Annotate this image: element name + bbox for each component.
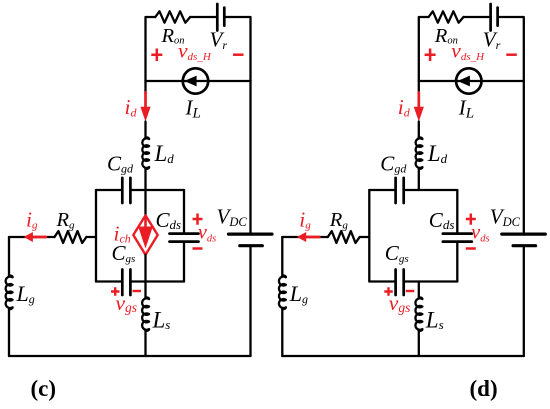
capacitor V_r plate left: [216, 4, 219, 31]
current arrow i_g head: [24, 232, 33, 242]
current arrow i_d shaft: [144, 93, 147, 109]
svg-text:Ls: Ls: [152, 308, 171, 333]
current source I_L circle: [456, 68, 481, 93]
svg-text:Cds: Cds: [156, 208, 182, 232]
wire capacitor to top-right corner: [499, 17, 524, 81]
current arrow i_d shaft: [417, 93, 420, 109]
capacitor C_ds plate top: [443, 232, 472, 235]
capacitor V_r plate right: [223, 8, 226, 26]
inductor L_g: [279, 276, 286, 310]
box bottom edge left: [96, 280, 121, 282]
wire top-left vertical and top lead: [146, 17, 156, 81]
svg-text:Ld: Ld: [154, 141, 175, 166]
inductor L_d: [142, 137, 149, 169]
svg-text:ig: ig: [26, 208, 38, 232]
current arrow i_g shaft: [31, 236, 46, 239]
capacitor C_gd plate left: [121, 178, 124, 203]
current arrow i_d head: [414, 107, 424, 122]
minus sign vds_H: [233, 53, 244, 56]
inductor L_g: [6, 276, 13, 310]
bottom wire: [9, 355, 251, 357]
svg-text:Vr: Vr: [210, 28, 228, 53]
gate wire left segment: [9, 236, 55, 238]
plus sign vds_H: [151, 49, 162, 62]
battery V_DC long plate: [502, 233, 546, 236]
svg-text:VDC: VDC: [217, 205, 248, 230]
current arrow i_g shaft: [304, 236, 319, 239]
svg-text:(c): (c): [31, 376, 57, 401]
current arrow i_d head: [140, 107, 150, 122]
plus sign vds: [466, 214, 476, 225]
plus sign vds: [193, 214, 203, 225]
svg-text:Ls: Ls: [425, 308, 444, 333]
capacitor C_gs plate left: [121, 270, 124, 296]
wire inductor to box: [418, 169, 420, 190]
minus sign vgs: [133, 290, 142, 292]
box top edge left: [369, 189, 394, 191]
svg-text:vgs: vgs: [116, 291, 138, 315]
resistor R_on: [155, 11, 190, 22]
box right edge lower: [183, 243, 185, 281]
wire drain junction down: [144, 81, 146, 94]
svg-text:Lg: Lg: [16, 281, 35, 306]
wire battery to bottom-right corner: [249, 247, 251, 356]
gate wire to box: [360, 236, 370, 238]
svg-text:Cgs: Cgs: [112, 241, 136, 265]
svg-text:vds_H: vds_H: [178, 39, 212, 64]
wire arrow to inductor: [144, 122, 146, 138]
box bottom edge right: [405, 280, 457, 282]
box left edge: [95, 190, 97, 282]
capacitor C_ds plate bottom: [443, 240, 472, 243]
inductor L_d: [416, 137, 423, 169]
svg-text:Cgd: Cgd: [380, 152, 407, 176]
wire diamond to inductor Ls: [144, 255, 146, 298]
current arrow i_g head: [297, 232, 306, 242]
bottom wire: [282, 355, 524, 357]
wire resistor to capacitor: [464, 16, 490, 18]
inductor L_s: [415, 297, 422, 331]
current source I_L circle: [183, 68, 208, 93]
capacitor V_r plate right: [496, 8, 499, 26]
svg-text:Cds: Cds: [429, 208, 455, 232]
battery V_DC long plate: [229, 233, 273, 236]
capacitor C_gd plate right: [402, 178, 405, 203]
svg-text:(d): (d): [470, 376, 498, 401]
current source i_ch arrow head: [138, 227, 153, 249]
left rail lower: [8, 309, 10, 356]
wire top-left vertical and top lead: [419, 17, 429, 81]
left rail lower: [281, 309, 283, 356]
box bottom edge right: [132, 280, 184, 282]
wire Ls to bottom: [418, 331, 420, 356]
svg-text:IL: IL: [458, 96, 474, 122]
wire arrow to inductor: [418, 122, 420, 138]
minus sign vgs: [406, 290, 415, 292]
plus sign vgs: [384, 287, 393, 296]
svg-text:VDC: VDC: [490, 205, 521, 230]
svg-text:id: id: [398, 95, 411, 120]
left rail: [281, 237, 283, 276]
current source i_ch arrow shaft: [144, 218, 147, 231]
box right edge upper: [183, 190, 185, 232]
svg-text:Vr: Vr: [483, 28, 501, 53]
wire Ls to bottom: [144, 331, 146, 356]
wire inductor to box: [144, 169, 146, 190]
battery V_DC short plate: [513, 244, 536, 247]
battery V_DC short plate: [240, 244, 262, 247]
svg-text:IL: IL: [185, 96, 201, 122]
capacitor C_gs plate left: [394, 270, 397, 296]
current source I_L arrowhead: [458, 76, 470, 87]
svg-text:vgs: vgs: [389, 291, 411, 315]
wire mid horizontal through current source: [419, 80, 524, 82]
capacitor C_ds plate top: [170, 232, 199, 235]
svg-text:Lg: Lg: [289, 281, 308, 306]
minus sign vds: [466, 247, 476, 250]
svg-text:vds: vds: [198, 222, 216, 245]
capacitor C_gs plate right: [402, 270, 405, 296]
gate wire to box: [86, 236, 96, 238]
gate wire left segment: [282, 236, 328, 238]
plus sign vgs: [111, 287, 120, 296]
wire right rail to battery: [249, 81, 251, 233]
box top edge right: [405, 189, 457, 191]
current source I_L arrowhead: [184, 76, 196, 87]
capacitor C_gd plate right: [129, 178, 132, 203]
plus sign vds_H: [425, 49, 436, 62]
box left edge: [368, 190, 370, 282]
svg-text:Rg: Rg: [56, 209, 76, 232]
capacitor V_r plate left: [489, 4, 492, 31]
inductor L_s: [142, 297, 149, 331]
box top edge right: [132, 189, 184, 191]
resistor R_g: [328, 231, 360, 243]
wire resistor to capacitor: [190, 16, 216, 18]
box top edge left: [96, 189, 121, 191]
svg-text:id: id: [125, 95, 138, 120]
wire capacitor to top-right corner: [226, 17, 251, 81]
svg-text:Cgd: Cgd: [107, 152, 134, 176]
labels circuit (c): [16, 25, 248, 333]
svg-text:vds_H: vds_H: [451, 39, 485, 64]
capacitor C_ds plate bottom: [170, 240, 199, 243]
resistor R_g: [55, 231, 87, 243]
svg-text:Rg: Rg: [329, 209, 349, 232]
wire mid horizontal through current source: [146, 80, 251, 82]
current source i_ch diamond: [133, 215, 157, 254]
box right edge lower: [456, 243, 458, 281]
svg-text:vds: vds: [471, 222, 489, 245]
wire box top to diamond: [144, 190, 146, 215]
minus sign vds_H: [506, 53, 517, 56]
wire drain junction down: [418, 81, 420, 94]
left rail: [8, 237, 10, 276]
svg-text:Cgs: Cgs: [385, 241, 409, 265]
svg-text:ig: ig: [299, 208, 311, 232]
minus sign vds: [193, 247, 203, 250]
box right edge upper: [456, 190, 458, 232]
svg-text:Ld: Ld: [427, 141, 448, 166]
capacitor C_gs plate right: [129, 270, 132, 296]
resistor R_on: [429, 11, 464, 22]
capacitor C_gd plate left: [394, 178, 397, 203]
wire battery to bottom-right corner: [523, 247, 525, 356]
labels circuit (d): [289, 25, 521, 333]
wire box bottom to inductor Ls: [418, 282, 420, 298]
wire right rail to battery: [523, 81, 525, 233]
box bottom edge left: [369, 280, 394, 282]
